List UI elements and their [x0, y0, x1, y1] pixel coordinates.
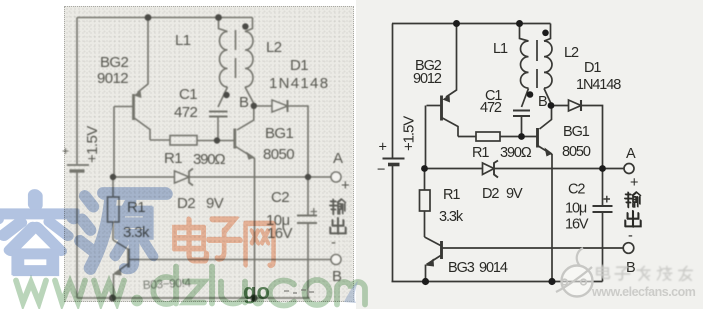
svg-text:L2: L2 [564, 45, 579, 61]
terminal B (left) [331, 255, 341, 265]
svg-text:R1: R1 [443, 187, 460, 203]
wire bottom rail left [77, 297, 310, 299]
phase dot L2 r [542, 30, 549, 37]
labels left circuit [62, 32, 350, 285]
svg-text:R1: R1 [472, 145, 489, 161]
wire BG2 emitter feed right [446, 24, 457, 98]
watermark swoosh near left B terminal [344, 281, 358, 303]
svg-text:9014: 9014 [479, 260, 508, 276]
label shuchu (output) left [330, 199, 346, 234]
transistor BG1 8050 right [538, 106, 553, 157]
svg-text:-: - [628, 228, 633, 244]
svg-text:L1: L1 [175, 32, 191, 49]
wire BG2 emitter feed [138, 18, 149, 93]
wire output line A [113, 176, 331, 178]
wire R1 to node C1 [197, 140, 235, 142]
svg-text:-: - [331, 234, 336, 251]
diode D1 1N4148 right [569, 100, 582, 111]
inductor L1 right [520, 24, 529, 89]
wire battery - down [392, 166, 394, 282]
transistor BG2 9012 [114, 90, 150, 140]
transformer core [235, 30, 237, 82]
wire output line A right [425, 168, 625, 170]
watermark text dianzifashaoyou [597, 266, 693, 281]
svg-text:9V: 9V [206, 195, 224, 212]
svg-text:472: 472 [480, 100, 502, 116]
svg-text:472: 472 [174, 104, 197, 121]
svg-text:9012: 9012 [413, 71, 442, 87]
wire BG1 emitter down right [551, 154, 553, 282]
node C2 top r [599, 165, 606, 172]
junction dots left [109, 14, 311, 302]
svg-text:8050: 8050 [562, 144, 591, 160]
node top2 [215, 14, 222, 21]
svg-text:10μ: 10μ [565, 201, 587, 217]
inductor L1 (left winding) [219, 18, 228, 88]
transistor BG2 9012 right [427, 95, 459, 137]
wire bottom rail right [392, 281, 603, 283]
watermark dianziwang orange [174, 219, 274, 266]
svg-text:+1.5V: +1.5V [401, 116, 418, 151]
capacitor C2 right [593, 169, 613, 282]
transformer core right [536, 40, 538, 88]
svg-text:R1: R1 [164, 150, 182, 167]
node top1 r [453, 20, 460, 27]
svg-text:B: B [239, 94, 249, 111]
svg-text:BG1: BG1 [265, 125, 293, 142]
svg-text:D2: D2 [482, 186, 499, 202]
watermark rongyuan blue [0, 193, 167, 271]
svg-text:go: go [243, 279, 270, 304]
wire node B to D1 [254, 105, 272, 107]
svg-text:B: B [538, 94, 547, 110]
wire BG1 emitter down [254, 158, 256, 298]
svg-text:C2: C2 [568, 182, 585, 198]
diode D1 1N4148 [272, 100, 288, 112]
capacitor C1 472 right [513, 88, 530, 136]
zener diode D2 9V right [483, 161, 499, 178]
svg-text:9V: 9V [506, 186, 523, 202]
node base/D2 [110, 174, 116, 180]
battery BT (right) [383, 159, 405, 165]
svg-text:BG2: BG2 [100, 54, 128, 71]
node base/D2 r [421, 165, 428, 172]
wire top rail left [77, 17, 253, 19]
junction dots right [421, 20, 606, 285]
resistor R1 3.3k right [420, 169, 431, 238]
svg-text:D1: D1 [584, 60, 601, 76]
wire left vertical to battery + [76, 18, 78, 165]
scan artifact dashes [284, 290, 314, 293]
inductor L2 (right winding) [245, 18, 254, 104]
wire BG2 base down right [425, 106, 427, 169]
transistor BG3 9014 right [425, 237, 442, 282]
svg-text:BG3: BG3 [448, 260, 475, 276]
svg-text:1N4148: 1N4148 [269, 75, 329, 92]
capacitor C1 472 [209, 87, 228, 141]
svg-text:+: + [341, 177, 350, 194]
svg-text:9012: 9012 [97, 70, 128, 87]
svg-text:L2: L2 [266, 39, 282, 56]
wire battery - down [76, 173, 78, 299]
wire collector to R1 right [458, 136, 476, 138]
svg-text:390Ω: 390Ω [500, 145, 532, 161]
wire BG2 base down [113, 107, 115, 178]
svg-text:16V: 16V [267, 225, 292, 242]
resistor R1 3.3k [108, 177, 120, 240]
phase dot L2 [242, 23, 248, 29]
node rail BG1 [250, 294, 257, 301]
svg-text:−: − [377, 162, 385, 178]
svg-text:16V: 16V [565, 217, 589, 233]
labels right circuit [377, 41, 638, 276]
node C1/R1 [214, 137, 220, 143]
node rail BG1 r [548, 278, 555, 285]
svg-text:+1.5V: +1.5V [84, 126, 101, 163]
svg-text:C1: C1 [179, 86, 197, 103]
wire top rail right [392, 23, 551, 25]
wire collector to R1 [150, 139, 170, 141]
phase dot L1 [223, 92, 229, 98]
inductor L2 right [544, 24, 552, 104]
svg-text:+: + [62, 144, 69, 158]
node rail BG3 [109, 294, 116, 301]
wire BG3 base to output B [129, 259, 332, 261]
svg-text:+: + [379, 140, 387, 156]
svg-text:A: A [626, 146, 636, 162]
wire R1 to C1 node right [500, 136, 537, 138]
svg-text:3.3k: 3.3k [439, 209, 464, 225]
terminal A (left) [331, 172, 341, 182]
wire D1 corner down right [581, 106, 603, 169]
svg-text:C2: C2 [271, 189, 289, 206]
phase dot L1 r [527, 91, 534, 98]
node top2 r [516, 20, 523, 27]
svg-text:390Ω: 390Ω [193, 151, 225, 168]
wire left vertical battery [392, 24, 394, 158]
svg-text:8050: 8050 [263, 146, 294, 163]
watermark elecfans logo [556, 248, 593, 297]
svg-text:D1: D1 [290, 57, 308, 74]
svg-text:BG1: BG1 [563, 124, 590, 140]
terminal B right [623, 243, 634, 254]
terminal A right [624, 164, 634, 174]
node rail BG3 r [422, 278, 429, 285]
svg-text:D2: D2 [177, 195, 195, 212]
zener diode D2 9V [175, 169, 194, 186]
svg-text:+: + [630, 175, 638, 191]
svg-text:www.elecfans.com: www.elecfans.com [591, 285, 696, 299]
transistor BG1 8050 [235, 104, 255, 160]
svg-text:A: A [333, 150, 343, 167]
resistor R1 390ohm [170, 136, 197, 146]
capacitor C2 10u16V [297, 177, 317, 298]
node B left [251, 103, 257, 109]
wire D1 to corner down [288, 106, 309, 177]
wire node B to D1 right [551, 105, 569, 107]
resistor R1 390ohm right [476, 132, 500, 141]
watermark www.dzluu.com green [16, 267, 365, 306]
battery BT1 (1.5V) [67, 165, 89, 171]
wire BG3 base to B terminal right [442, 247, 624, 249]
transistor BG3 9014 [113, 240, 129, 298]
node C2 top [305, 174, 311, 180]
svg-text:1N4148: 1N4148 [576, 77, 621, 93]
svg-text:L1: L1 [493, 41, 508, 57]
node C1 bottom r [518, 133, 525, 140]
label shuchu (output) right [625, 192, 641, 227]
node B right [548, 102, 555, 109]
node top1 [145, 14, 152, 21]
